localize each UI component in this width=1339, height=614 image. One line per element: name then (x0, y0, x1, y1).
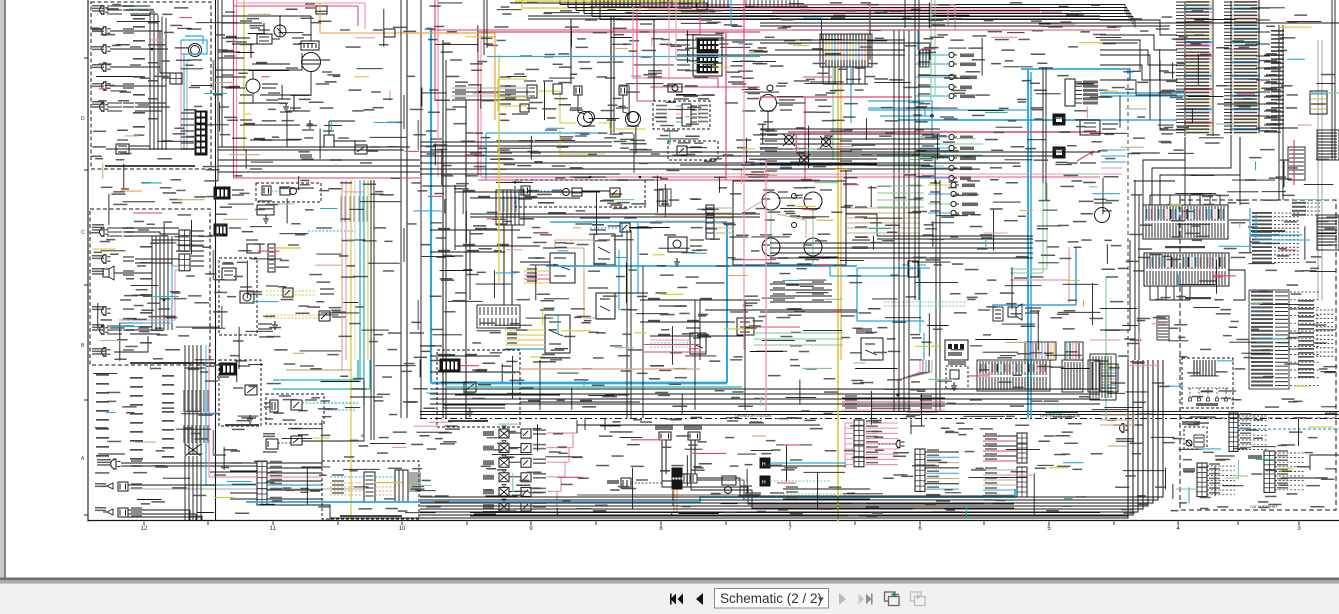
cyan main bus vertical left (427, 27, 431, 29)
black vertical pair x1043 (1042, 67, 1044, 200)
battery block 3 (220, 363, 236, 375)
panel lamp pink wire (650, 339, 690, 341)
crimson top loop verticals (699, 12, 701, 35)
comb drop verticals black (822, 67, 824, 84)
cyan big U horizontal (431, 382, 727, 385)
green verticals x931 (930, 0, 932, 101)
wires into center ladder (210, 465, 257, 467)
divider drop wires (584, 418, 586, 430)
backup lamp 2 (102, 307, 107, 315)
blue wire from H (770, 462, 846, 464)
node F connector (1264, 451, 1275, 492)
schematic bottom border (88, 520, 1339, 522)
sensor wires right (334, 141, 355, 147)
left bundle labels b (96, 374, 109, 376)
connector box with squares (945, 340, 968, 360)
center ladder right wires (267, 462, 322, 464)
orange vertical to sensor (319, 16, 321, 33)
yellow top segment (522, 0, 668, 8)
toolbar background (0, 584, 1339, 614)
vertical pair x500-520 down (503, 225, 505, 305)
cyan vertical bottom bundle (205, 368, 207, 485)
teal wires right (324, 402, 358, 404)
refrigerant sw yellow dashed wires (266, 314, 319, 316)
horizontal double y16 (528, 15, 1100, 17)
cyan stub cluster right mid (1101, 149, 1126, 151)
flush relay top right (1317, 130, 1339, 160)
box1 interior labels (133, 18, 145, 20)
front wiper switch (596, 293, 615, 319)
toolbar page combobox (715, 589, 829, 609)
top center comb ticks (591, 0, 593, 7)
rows labels bottom left (783, 488, 870, 490)
front wiper motor circle (1095, 208, 1110, 223)
solenoid pink fan (547, 432, 577, 434)
cyan horizontal into column (1100, 92, 1185, 94)
bottom-left extra labels (214, 454, 226, 456)
L routes into columns (1100, 20, 1177, 35)
small box near x571 y86 (553, 84, 562, 94)
wiper cyan wires (550, 221, 727, 223)
pink ladder group rows (854, 420, 864, 467)
air dryer option box (946, 366, 968, 389)
labelled rows mid (842, 397, 945, 399)
blower motor 1 (574, 86, 582, 95)
turn lamp bottom (107, 483, 113, 489)
pink second long y174 (620, 173, 1100, 175)
svg-text:C: C (81, 230, 85, 236)
fourth comb widen (1090, 354, 1116, 400)
cat autoshift dashed box (1180, 200, 1336, 510)
pink long horizontal y177 (481, 176, 1100, 178)
wire to right from ladder (267, 505, 330, 520)
indicator lamp rows mid (920, 136, 948, 138)
teal horizontal wires (273, 370, 358, 380)
engine wire y58 (218, 57, 244, 59)
alternator circle (246, 79, 260, 93)
engine upper extra wires (250, 44, 252, 58)
wire drops from y16 (570, 19, 572, 84)
orange engine vertical (319, 3, 321, 16)
coolant heater receptacle (257, 205, 274, 215)
node 6 cyan dashed long wire (1238, 428, 1339, 430)
window left gray strip (0, 0, 5, 578)
cyan U right vertical (726, 224, 728, 383)
flasher label (648, 76, 662, 78)
harness comb block 1 (1143, 205, 1228, 239)
flood lamp receptacle 2 (102, 82, 107, 90)
ac fan switch box (545, 315, 570, 353)
black verticals x484 (483, 0, 485, 55)
toolbar previous button (left triangle) (696, 593, 703, 605)
engine wire y95 (260, 94, 311, 96)
operator station double line (420, 411, 1339, 413)
comb exit wires down (1149, 286, 1151, 300)
cyan wire in box 1 (183, 54, 185, 150)
cyan web center (868, 101, 932, 116)
cluster gage box (733, 181, 846, 265)
cyan wire mid box (142, 266, 179, 323)
relay blocks right duo (1053, 114, 1065, 125)
headlamp washer labels (548, 212, 566, 214)
24v batt box (222, 268, 236, 280)
stop lamp sw arrow (1077, 151, 1094, 161)
oil pressure relay (355, 145, 367, 154)
yellow long vertical x499 (498, 55, 500, 283)
shutdown comb connector (268, 244, 275, 272)
sys steer vertical pair right (400, 0, 402, 418)
engine wire y23 (222, 22, 262, 24)
pink stub cluster right mid (1101, 167, 1122, 169)
rear harness dashed box (mid left) (90, 209, 210, 365)
vertical pair x1279 (1278, 25, 1280, 200)
verticals x1135 mid right (1134, 180, 1136, 360)
crimson vertical x478 (477, 32, 479, 177)
note4 relay cluster (590, 227, 618, 229)
bundle labels rotated (340, 196, 341, 222)
yellow top horizontal (515, 0, 705, 2)
speedometer gauge (760, 95, 777, 112)
backup lamp (102, 45, 107, 53)
top bundle bends (559, 0, 561, 5)
junction labels (765, 130, 777, 132)
flood lamp 3 (101, 255, 106, 263)
mid black horizontals y40-52 (760, 43, 930, 60)
top black line y3 (515, 2, 700, 4)
speed sensor relay (291, 436, 302, 445)
alarm module (908, 261, 918, 277)
harness label box2 (130, 362, 215, 364)
extra cyan stubs (923, 333, 925, 360)
pink vertical x481 (480, 35, 482, 177)
extra horizontal y405-410 left (443, 404, 505, 406)
key start switch (550, 253, 575, 283)
engine speed sensor (266, 439, 278, 449)
green rows lower (877, 143, 983, 145)
pre-divider horizontals (430, 388, 1100, 390)
right edge wires into border (1310, 455, 1339, 470)
x894 bundle extension up (893, 30, 895, 120)
toolbar next-view icon (disabled pages) (911, 592, 922, 601)
ladder group 3 lower (1017, 467, 1027, 497)
svg-text:H: H (762, 462, 766, 468)
crimson vertical x744 up (743, 0, 745, 88)
junction X nodes (783, 134, 795, 146)
wires bundle to lamps (189, 510, 191, 520)
svg-text:H: H (762, 480, 766, 486)
battery block 2 (214, 224, 227, 236)
rear connector ladder (170, 73, 182, 84)
center connector ladder bottom (257, 461, 267, 505)
engine wire y77 (215, 76, 246, 78)
gauge green drops (770, 210, 772, 265)
flasher dashed inner rows (656, 105, 667, 107)
stop/tail/turn lamp group 3 (107, 227, 122, 229)
long L routes right half (676, 0, 905, 40)
horizontal comb connector mid (477, 305, 520, 328)
gray vertical pair right (1317, 40, 1319, 300)
starter relay box (257, 34, 272, 44)
scatter labels lower band (430, 345, 442, 347)
thermostat box (520, 104, 529, 112)
rops dashed tree (1188, 387, 1228, 389)
yellow trunk vertical (244, 0, 247, 150)
comb top right corner (1317, 215, 1339, 250)
wiper box label (340, 515, 402, 517)
crimson horizontal y180 (478, 179, 820, 181)
start aid relay (291, 400, 302, 410)
cyan steps in cat box (1250, 208, 1302, 235)
lamp flash circle (767, 85, 773, 91)
svg-text:11: 11 (270, 526, 277, 532)
box2 interior labels (140, 246, 152, 248)
pink vertical x438 (437, 0, 439, 177)
right comb with red (1288, 147, 1305, 180)
more engine labels (225, 11, 235, 13)
bundle extension up left (184, 345, 186, 368)
cyan horizontal y56 (487, 56, 760, 58)
ac clutch yellow dashed wires (266, 290, 316, 292)
pink trunk verticals x233 (233, 0, 235, 178)
rear wiper switch (594, 234, 615, 265)
kickout label (483, 511, 531, 513)
cat box right stub rows (1316, 309, 1334, 311)
pink vertical x766 (765, 160, 767, 411)
flasher relay oval (668, 84, 682, 92)
small comb x920 (920, 50, 929, 67)
resistor blower box (527, 85, 537, 98)
wire y172 left (218, 171, 420, 173)
flasher pin list (682, 104, 691, 126)
cyan stub backup (119, 322, 142, 324)
open rops lighting box (1182, 358, 1233, 408)
flood lamp green rows (754, 332, 843, 334)
wires sweep right from solenoids (577, 424, 820, 426)
gauge voltmeter (762, 192, 780, 210)
panel lamp green dashes (650, 342, 690, 344)
wire speed sensor right (302, 380, 364, 441)
node H connector (621, 478, 631, 488)
gauge water temp (762, 238, 780, 256)
colored bundle into node (898, 360, 920, 395)
keyswitch comb connectors (496, 190, 524, 225)
labels right of speedo (815, 94, 827, 96)
engine shutdown solenoid (247, 244, 260, 253)
stop/tail lamp bottom (107, 509, 113, 515)
ladder group 3 upper (1017, 433, 1027, 463)
cabtop flood receptacle mid (896, 440, 900, 448)
cyan y120 extension (1100, 119, 1177, 121)
stop/tail/turn lamp group 2 (107, 102, 122, 104)
cyan long bottom wire (830, 489, 1015, 497)
lift kickout solenoid rows (483, 431, 494, 436)
long verticals x420 area (420, 0, 422, 418)
826G diag label 2 (448, 420, 488, 422)
flood lamp sw relays (737, 318, 754, 335)
crimson y87 wire (650, 86, 760, 88)
crimson top y30 (430, 29, 1120, 31)
backup alarm speaker (103, 269, 109, 277)
autoshift inner dashed lines (1180, 417, 1336, 419)
teal parallel wire (445, 386, 742, 388)
battery block option (440, 359, 460, 372)
label bar under combs (1185, 297, 1211, 299)
radiator washer labels (575, 132, 589, 134)
bucket solenoid (688, 432, 700, 440)
pink vertical bottom bundle (208, 368, 210, 477)
trunk vertical x222 (221, 0, 223, 147)
nested rects bottom right routing (420, 360, 1128, 518)
green vertical right (1105, 277, 1107, 420)
green rows right (1010, 268, 1047, 270)
corridor labels y150-178 (430, 149, 442, 151)
wiper tan dashed wires (330, 482, 364, 484)
svg-text:OPERATOR STATION: OPERATOR STATION (735, 414, 771, 418)
plug spare rows (1292, 202, 1306, 204)
start aid teal dashes (302, 402, 324, 404)
alternator label (240, 94, 252, 96)
center vertical pair x611 (610, 16, 612, 133)
toolbar last-page button (double right triangles, disabled) (859, 594, 865, 605)
yellow loop blower (537, 91, 576, 123)
pink flasher box outline (646, 78, 718, 88)
autoshift signal list (1251, 291, 1273, 293)
stop/tail/turn lamp group 1 (107, 5, 122, 7)
pink drop pair top center (633, 5, 646, 78)
backup alarm horn (1008, 307, 1016, 317)
cyan right network (1075, 247, 1077, 305)
gray wire bottom (128, 488, 364, 490)
svg-text:Schematic (2 / 2): Schematic (2 / 2) (720, 591, 822, 606)
neutral override switch (861, 338, 883, 360)
pink stub backup (119, 319, 142, 321)
mid connector ladders (179, 230, 190, 251)
starter motor circle (302, 53, 321, 72)
brown horizontal wire (286, 369, 352, 371)
rear harness dashed box (top left) (91, 2, 211, 169)
air seat receptacle (316, 6, 327, 14)
cyan vertical x731 (730, 0, 732, 26)
cyan dashes note4 (308, 230, 356, 232)
horn relay dashed box (668, 141, 718, 160)
comb connectors under divider (977, 360, 1050, 391)
crimson vertical x435 (434, 0, 436, 100)
column B outline (1230, 1, 1232, 134)
toolbar next button (right triangle, disabled) (839, 593, 846, 605)
second cyan horizontal y110 (868, 109, 1028, 111)
wire bundle to rear connector (149, 12, 151, 150)
gauge tan wires (714, 207, 733, 209)
bundle X crossing (185, 444, 201, 456)
gauge connector bar (706, 205, 714, 239)
license lamp connector (102, 348, 107, 356)
blower motor 2 (619, 86, 627, 95)
refrigerant ground (274, 321, 276, 325)
horizontal pair y214 (470, 213, 760, 215)
misc L routes right (1100, 40, 1140, 70)
bottom horizontals extra (577, 494, 760, 496)
black box x697 (697, 3, 707, 10)
panel lamp crimson rows (644, 344, 700, 346)
wires lamps to mid ladder (122, 227, 179, 229)
start aid comb (270, 400, 278, 412)
node 6 connector (1229, 413, 1238, 451)
gauge tan feed left (655, 214, 706, 216)
wire y166 left (218, 165, 420, 167)
cat box interior rows c (1252, 212, 1272, 214)
ac fan yellow wires (505, 329, 545, 331)
turn signal switch block (693, 35, 722, 76)
826G diag label (225, 424, 259, 426)
wiper cyan dashed wire (330, 476, 364, 478)
black trunk pair x443 (442, 40, 444, 418)
wire list column A (1176, 1, 1184, 3)
crimson wires mid (760, 96, 912, 98)
yellow wire shutdown (275, 247, 301, 249)
crimson horizontal top (478, 31, 760, 33)
comb labels rotated (498, 198, 499, 218)
brake level receptacle (722, 476, 736, 485)
top band extra lines (760, 22, 1339, 24)
solenoid pink risers (576, 420, 578, 433)
comb connector with drops (820, 34, 872, 67)
cigar lighter (668, 237, 687, 252)
column B right stubs (1256, 7, 1270, 9)
engine area extra d (222, 37, 250, 39)
statusbar separator gray band (0, 580, 1339, 583)
disconnect ground (249, 415, 251, 419)
oil pressure sensor label (540, 357, 562, 359)
vert x287 (286, 111, 288, 147)
node 5 kickout sensor (1184, 427, 1207, 449)
mid bundle verticals (151, 236, 153, 330)
retard relay blocks (993, 307, 1003, 321)
stop/tail/turn lamp group 4 (107, 325, 122, 327)
teal verticals going up (357, 360, 359, 370)
node G connector (1197, 463, 1207, 497)
svg-text:10: 10 (399, 526, 406, 532)
disconnect ground 2 (469, 408, 471, 412)
hyd oil temp sensor (383, 32, 385, 34)
colored stub shimmer (293, 352, 305, 354)
brown wires below comb (673, 483, 675, 512)
extra wire rows bottom left (210, 471, 257, 473)
voltage converter dashed box (219, 258, 257, 335)
right column inner verticals (1212, 0, 1214, 136)
speedo wires (776, 102, 805, 104)
wire corridor y150-178 center (420, 151, 1100, 153)
washer circle restyle (578, 112, 593, 127)
start relay circle (274, 25, 286, 37)
wire y160 left (218, 159, 420, 161)
pink second loop (234, 177, 421, 179)
right small connector box (1310, 91, 1327, 114)
green dashes from H (770, 480, 830, 482)
labels near pink pair (678, 3, 692, 5)
extra smudge shimmer (163, 192, 177, 194)
cabtop comb (1100, 364, 1118, 392)
wires y300-320 (760, 311, 857, 313)
front rear wiper dashed box (322, 461, 419, 519)
comb top connections (1149, 195, 1151, 205)
left solenoid (659, 432, 671, 440)
fuse wire (287, 110, 310, 112)
svg-text:12: 12 (141, 526, 148, 532)
H relay blocks left edge (760, 458, 770, 468)
scatter labels top band (510, 2, 522, 4)
black vertical pair x915 (914, 0, 916, 300)
converter box (240, 291, 254, 303)
